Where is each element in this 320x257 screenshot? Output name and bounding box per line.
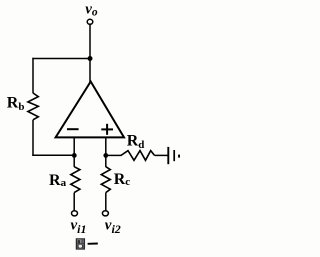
wire inverting input — [73, 138, 75, 156]
terminal vo — [87, 19, 93, 24]
wire left vertical lower — [32, 120, 34, 156]
wire non-inverting input — [105, 138, 107, 156]
junction non-inverting input node — [103, 153, 108, 158]
probe tall plate — [167, 147, 169, 164]
caption dash yi (one) — [88, 243, 98, 245]
resistor Ra — [73, 155, 75, 167]
probe short plate — [173, 150, 175, 161]
wire non-inverting node to Rd — [106, 154, 122, 156]
caption character tu (figure) — [76, 239, 84, 249]
minus sign (inverting input) — [67, 128, 79, 130]
op-amp U1 — [56, 82, 124, 138]
terminal vi2 — [102, 211, 108, 216]
junction output node — [88, 56, 93, 61]
wire Rd to probe plate — [155, 154, 169, 156]
junction inverting input node — [72, 153, 77, 158]
resistor Rd — [121, 151, 155, 161]
resistor Rb — [28, 93, 38, 120]
wire left vertical upper — [32, 58, 34, 93]
probe stub mark — [178, 155, 180, 158]
resistor Rc — [105, 155, 107, 167]
terminal vi1 — [72, 211, 78, 216]
wire feedback top run — [32, 58, 90, 60]
wire vo down to op-amp output apex — [89, 24, 91, 82]
plus sign (non-inverting input) — [101, 128, 113, 130]
wire Rb bottom to inverting node — [32, 154, 74, 156]
